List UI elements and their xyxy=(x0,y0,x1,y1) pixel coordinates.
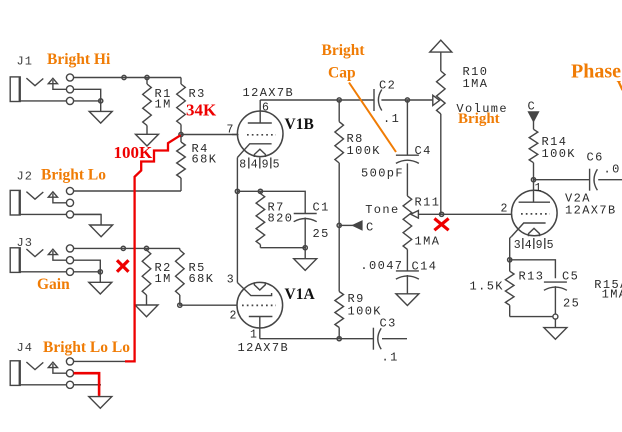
wire V1A plate to C3 xyxy=(260,338,374,340)
resistor R13 xyxy=(505,260,514,317)
triode V1A envelope xyxy=(237,282,283,328)
R10 wiper arrow xyxy=(433,95,440,105)
svg-text:V1A: V1A xyxy=(285,286,316,303)
svg-text:Bright Hi: Bright Hi xyxy=(47,51,111,68)
label 500pF xyxy=(361,167,404,181)
svg-text:R3: R3 xyxy=(189,87,206,101)
label C1 xyxy=(313,200,330,241)
label 12AX7B V1B xyxy=(243,86,295,100)
label R13 xyxy=(519,269,545,283)
label R5 xyxy=(189,261,215,286)
wire J2 tip to R4 xyxy=(74,190,181,192)
label R9 xyxy=(348,292,382,319)
svg-text:Gain: Gain xyxy=(37,276,70,293)
triode V2A envelope xyxy=(512,190,558,236)
pin label 2 V2A xyxy=(501,203,508,216)
svg-text:Phase I: Phase I xyxy=(571,61,622,83)
wire C1 bottom xyxy=(304,218,306,248)
ground C14 xyxy=(396,294,419,306)
label V1A xyxy=(285,286,316,303)
orange pointer line xyxy=(349,83,396,153)
junction R8 top xyxy=(337,98,341,102)
label J1 xyxy=(17,55,33,69)
label R3 xyxy=(189,87,206,101)
V2A pin row 3495 xyxy=(514,238,554,252)
wire to V2A grid xyxy=(442,213,512,215)
wire R13 to C5 xyxy=(510,260,556,278)
wire J3 tip to R5 top xyxy=(74,247,180,249)
V1A grid dotted xyxy=(242,304,276,306)
resistor R8 xyxy=(335,100,344,225)
junction R9 bottom xyxy=(337,337,341,341)
V1B grid dotted xyxy=(247,134,276,136)
V1B plate xyxy=(248,100,272,123)
wire to R7 C1 xyxy=(237,191,305,213)
svg-text:R11: R11 xyxy=(415,195,441,209)
label 34K xyxy=(186,101,217,120)
label R7 xyxy=(268,200,294,225)
capacitor C4 xyxy=(396,100,419,163)
svg-text:2: 2 xyxy=(230,310,237,323)
label C6 value xyxy=(604,163,621,177)
R11 wiper arrow xyxy=(411,211,442,219)
V2A plate xyxy=(519,201,550,203)
capacitor C5 xyxy=(544,282,567,290)
arrow C down xyxy=(529,112,539,121)
pin label 1 xyxy=(250,329,257,342)
label R11 xyxy=(415,195,441,209)
label Gain xyxy=(37,276,70,293)
svg-text:2: 2 xyxy=(501,203,508,216)
junction R13 top xyxy=(508,258,512,262)
label Bright Hi xyxy=(47,51,111,68)
label C2 xyxy=(379,79,396,93)
wire C5 bottom xyxy=(554,286,556,314)
svg-text:1M: 1M xyxy=(155,272,172,286)
junction R7 top xyxy=(258,189,262,193)
label R10 xyxy=(463,65,489,91)
resistor R9 xyxy=(335,225,344,338)
wire J3 ring elbow xyxy=(74,260,101,272)
V2A cathode xyxy=(512,223,546,237)
svg-text:5: 5 xyxy=(273,159,280,172)
svg-text:1: 1 xyxy=(250,329,257,342)
svg-text:J2: J2 xyxy=(17,169,33,183)
svg-text:.0: .0 xyxy=(604,163,621,177)
svg-text:1MA: 1MA xyxy=(602,288,622,302)
red X mark J3 xyxy=(117,260,129,272)
label C14 value xyxy=(360,259,403,273)
svg-text:C5: C5 xyxy=(562,269,579,283)
junction R2 top xyxy=(144,246,148,250)
wire C4 to R11 xyxy=(406,163,408,196)
junction node on J3 wire xyxy=(121,246,125,250)
label J4 xyxy=(17,341,33,355)
junction R14 bottom xyxy=(531,178,535,182)
capacitor C1 xyxy=(294,214,317,222)
ground J3 xyxy=(89,272,112,294)
resistor R3 xyxy=(177,78,186,135)
potentiometer R11 Tone xyxy=(403,196,412,250)
ground R2 xyxy=(135,305,158,317)
potentiometer R10 xyxy=(437,71,446,214)
label C3 xyxy=(380,317,397,331)
junction R1 top xyxy=(145,75,149,79)
svg-text:8: 8 xyxy=(239,159,246,172)
svg-text:C4: C4 xyxy=(415,144,432,158)
wire to pin 7 xyxy=(181,134,237,136)
wire J1 tip to R3 top xyxy=(74,77,181,79)
label Bright Lo xyxy=(41,167,106,184)
ground J2 xyxy=(90,225,113,237)
svg-text:1.5K: 1.5K xyxy=(470,280,504,294)
svg-text:3: 3 xyxy=(514,239,521,252)
svg-text:Bright: Bright xyxy=(322,42,366,59)
label V2A xyxy=(565,192,591,206)
V1B pin row 8495 xyxy=(239,158,279,172)
label C net xyxy=(528,100,537,114)
label Bright Cap xyxy=(322,42,366,82)
terminal circle C5 ground xyxy=(553,314,558,319)
svg-text:25: 25 xyxy=(563,297,580,311)
resistor R1 xyxy=(143,78,152,135)
svg-text:1: 1 xyxy=(535,182,542,195)
label R4 xyxy=(192,142,218,167)
junction J3 ground xyxy=(98,270,102,274)
svg-text:1MA: 1MA xyxy=(463,77,489,91)
junction J1 ground xyxy=(99,99,103,103)
svg-text:.1: .1 xyxy=(382,351,399,365)
red X mark tone xyxy=(434,219,448,231)
label R15 xyxy=(594,278,622,292)
red wire 100K resistor path xyxy=(125,135,181,361)
label R8 xyxy=(347,132,381,158)
svg-text:9: 9 xyxy=(536,239,543,252)
resistor R14 xyxy=(529,121,538,179)
svg-text:4: 4 xyxy=(525,239,532,252)
wire R14 to C6 xyxy=(534,179,590,181)
svg-text:R13: R13 xyxy=(519,269,545,283)
label Bright Lo Lo xyxy=(43,339,130,356)
wire cathode bus xyxy=(236,158,238,283)
wire J2 sleeve to ground xyxy=(74,214,102,225)
V1A heater xyxy=(254,282,265,290)
svg-text:J1: J1 xyxy=(17,55,33,69)
junction node A on J1 wire xyxy=(122,75,126,79)
jack J1 xyxy=(10,74,101,105)
label J3 xyxy=(17,236,33,250)
capacitor C2 xyxy=(374,89,382,111)
label 100K red xyxy=(114,143,154,162)
label C14 xyxy=(412,259,438,273)
label R2 xyxy=(155,261,172,286)
wire J4 tip xyxy=(74,360,126,362)
V2A heater xyxy=(529,228,540,236)
svg-text:C6: C6 xyxy=(587,151,604,165)
svg-text:4: 4 xyxy=(251,159,258,172)
svg-text:12AX7B: 12AX7B xyxy=(565,204,617,218)
svg-text:100K: 100K xyxy=(542,147,576,161)
label V partial xyxy=(617,79,622,95)
svg-text:34K: 34K xyxy=(186,101,217,120)
label 1MA tone xyxy=(415,234,441,248)
ground J4 xyxy=(89,397,112,409)
junction cathode bus xyxy=(235,189,239,193)
svg-text:Bright Lo: Bright Lo xyxy=(41,167,106,184)
svg-text:12AX7B: 12AX7B xyxy=(243,86,295,100)
junction R10 bottom xyxy=(440,212,444,216)
wire C3 out xyxy=(382,338,407,340)
junction R5 bottom xyxy=(178,303,182,307)
junction C1 ground xyxy=(303,246,307,250)
svg-text:3: 3 xyxy=(227,273,234,286)
wire R11 to C14 xyxy=(406,249,408,271)
svg-text:9: 9 xyxy=(262,159,269,172)
svg-text:6: 6 xyxy=(262,102,269,115)
svg-text:Bright Lo Lo: Bright Lo Lo xyxy=(43,339,130,356)
ground R1 xyxy=(136,134,159,146)
pin label 1 xyxy=(535,182,542,195)
label R14 xyxy=(542,135,576,161)
svg-text:1MA: 1MA xyxy=(415,234,441,248)
wire R5 to V1A grid xyxy=(180,304,238,306)
svg-text:5: 5 xyxy=(547,239,554,252)
wire J4 sleeve drop xyxy=(98,385,100,397)
svg-text:1M: 1M xyxy=(155,98,172,112)
wire R13 bottom xyxy=(510,316,553,318)
resistor R2 xyxy=(142,248,151,305)
V1B heater xyxy=(254,149,265,157)
arrow C left xyxy=(339,221,374,235)
junction C4 top xyxy=(405,98,409,102)
V2A plate riser xyxy=(533,180,535,203)
label 12AX7B V2A xyxy=(565,204,617,218)
svg-text:J4: J4 xyxy=(17,341,33,355)
pin label 2 xyxy=(230,310,237,323)
ground R7 C1 xyxy=(294,248,317,271)
label J2 xyxy=(17,169,33,183)
wire R7 bottom xyxy=(260,247,305,249)
svg-text:Cap: Cap xyxy=(328,65,356,82)
V1A pin 3 wire xyxy=(236,282,238,284)
resistor R4 xyxy=(177,135,186,192)
wire V2A pin 3 xyxy=(510,237,512,260)
pin label 3 xyxy=(227,273,234,286)
ground J1 xyxy=(89,101,112,123)
svg-text:Tone: Tone xyxy=(365,203,399,217)
svg-text:C3: C3 xyxy=(380,317,397,331)
svg-text:12AX7B: 12AX7B xyxy=(238,341,290,355)
svg-text:68K: 68K xyxy=(192,153,218,167)
label C3 value xyxy=(382,351,399,365)
wire C6 out xyxy=(598,179,622,181)
svg-text:500pF: 500pF xyxy=(361,167,404,181)
junction R3-R4 xyxy=(179,132,183,136)
resistor R7 xyxy=(256,191,265,247)
label C5 value xyxy=(563,297,580,311)
wire J4 sleeve xyxy=(74,384,100,386)
label V1B xyxy=(285,116,314,133)
svg-text:C1: C1 xyxy=(313,200,330,214)
svg-text:.1: .1 xyxy=(383,112,400,126)
V1A plate xyxy=(249,317,273,339)
ground R13 C5 xyxy=(544,319,567,339)
capacitor C6 xyxy=(590,169,598,191)
label 12AX7B V1A xyxy=(238,341,290,355)
svg-text:V: V xyxy=(617,79,622,95)
power supply symbol xyxy=(430,40,452,71)
svg-text:.0047: .0047 xyxy=(360,259,403,273)
label R1 xyxy=(155,87,172,112)
junction node C tone xyxy=(337,223,341,227)
jack J3 xyxy=(10,245,101,276)
label C4 xyxy=(415,144,432,158)
pin label 6 xyxy=(262,102,269,115)
jack J2 xyxy=(10,187,101,218)
V1B pin 7 wire xyxy=(232,134,239,136)
label Bright volume xyxy=(458,111,500,127)
svg-text:C2: C2 xyxy=(379,79,396,93)
pin label 7 xyxy=(227,124,234,137)
label R15 value xyxy=(602,288,622,302)
label 1.5K xyxy=(470,280,504,294)
label Tone xyxy=(365,203,399,217)
svg-text:820: 820 xyxy=(268,212,294,226)
svg-text:V1B: V1B xyxy=(285,116,314,133)
resistor R5 xyxy=(176,248,185,305)
svg-text:C14: C14 xyxy=(412,259,438,273)
svg-text:C: C xyxy=(366,221,375,235)
svg-text:68K: 68K xyxy=(189,272,215,286)
svg-text:100K: 100K xyxy=(114,143,154,162)
wire C14 bottom xyxy=(406,275,408,294)
capacitor C14 xyxy=(396,271,419,279)
capacitor C3 xyxy=(373,328,381,350)
svg-text:100K: 100K xyxy=(347,144,381,158)
triode V1B envelope xyxy=(237,111,283,157)
V1A cathode xyxy=(238,283,272,296)
svg-text:25: 25 xyxy=(313,227,330,241)
jack J4 xyxy=(10,358,101,389)
label Volume xyxy=(456,102,508,116)
V2A grid dotted xyxy=(521,213,550,215)
wire J1 ring elbow xyxy=(74,89,101,101)
wire V1B plate to volume xyxy=(260,99,433,101)
svg-text:Bright: Bright xyxy=(458,111,500,127)
svg-text:J3: J3 xyxy=(17,236,33,250)
label Phase I xyxy=(571,61,622,83)
svg-text:7: 7 xyxy=(227,124,234,137)
label C6 xyxy=(587,151,604,165)
svg-text:100K: 100K xyxy=(348,305,382,319)
red wire J4 ring to ground xyxy=(74,373,100,396)
V1B cathode xyxy=(237,144,271,158)
label C5 xyxy=(562,269,579,283)
label C2 value xyxy=(383,112,400,126)
